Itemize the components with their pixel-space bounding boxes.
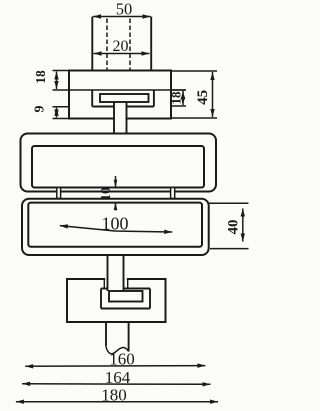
upper punch shank right edge — [150, 17, 152, 71]
gap in holder bottom edge at stem — [115, 117, 126, 120]
plate/holder seam line with left+right extensions — [53, 89, 186, 91]
dimension 50 line — [93, 16, 151, 18]
dimension 40 extension bottom — [210, 248, 249, 250]
lower shank left edge — [105, 322, 107, 347]
lower punch hole right wall — [127, 278, 129, 288]
svg-text:20: 20 — [113, 38, 129, 55]
lower T-slot right shoulder — [124, 288, 151, 290]
dimension 18 right extension bottom — [171, 105, 186, 107]
svg-text:9: 9 — [33, 106, 48, 113]
lower T-slot bottom — [101, 308, 150, 310]
svg-text:40: 40 — [225, 220, 241, 235]
svg-text:45: 45 — [195, 90, 211, 105]
lower T-slot right wall — [149, 289, 151, 309]
upper plate outline — [69, 71, 171, 119]
lower die cap (rounded) — [22, 199, 209, 255]
lower punch T-head — [109, 291, 143, 302]
lower T-slot left wall — [100, 289, 102, 309]
upper punch shank left edge — [91, 17, 93, 71]
dimension 10 lower arrow — [114, 202, 118, 210]
plate top extension line (left) — [53, 70, 70, 72]
lower punch holder block — [67, 279, 166, 322]
dimension 160 line — [25, 365, 205, 368]
dimension 45 extension bottom — [171, 117, 217, 119]
dimension 100 line — [60, 226, 172, 232]
holder bottom extension line (left) — [53, 118, 70, 120]
dimension 9 line — [56, 108, 58, 118]
hidden hole right edge (dashed) — [129, 19, 131, 71]
break (wavy) line — [106, 347, 129, 354]
lower punch stem left edge — [107, 255, 109, 292]
upper punch T-head — [100, 94, 149, 102]
right locating tab — [171, 188, 175, 199]
upper punch stem left edge — [113, 102, 115, 134]
dimension 10 line lower part — [115, 202, 117, 210]
svg-text:18: 18 — [168, 91, 183, 105]
lower shank right edge — [128, 322, 130, 352]
lower die insert block — [28, 203, 202, 247]
dimension 20 line — [94, 53, 150, 55]
dimension 9 extension line — [53, 106, 70, 108]
T-slot left shoulder — [92, 106, 114, 108]
upper die insert block — [32, 146, 204, 188]
dimension 40 line — [242, 209, 244, 242]
lower punch hole left wall — [103, 278, 105, 288]
lower punch stem right edge — [123, 255, 125, 292]
svg-text:50: 50 — [116, 0, 133, 19]
lower T-slot left shoulder — [101, 288, 108, 290]
dimension 45 extension top — [171, 70, 217, 72]
dimension 18 left line — [56, 72, 58, 90]
T-slot right wall — [153, 90, 155, 107]
gap in lower block top edge at hole — [105, 277, 127, 280]
svg-text:18: 18 — [33, 70, 48, 84]
dimension 18 right extension top — [171, 89, 186, 91]
dimension 10 line upper part — [115, 176, 117, 188]
dimension 45 line — [212, 72, 214, 117]
T-slot left wall — [91, 90, 93, 107]
dimension 18 right line — [182, 91, 184, 105]
dimension 180 line — [16, 401, 218, 403]
upper punch stem right edge — [126, 102, 128, 134]
left locating tab — [57, 188, 61, 199]
dimension 10 upper arrow — [114, 180, 118, 188]
dimension 164 line — [22, 383, 210, 386]
dimension 40 extension top — [209, 202, 249, 204]
T-slot right shoulder — [127, 106, 154, 108]
upper die cap (rounded) — [21, 134, 217, 192]
hidden hole left edge (dashed) — [106, 19, 108, 71]
